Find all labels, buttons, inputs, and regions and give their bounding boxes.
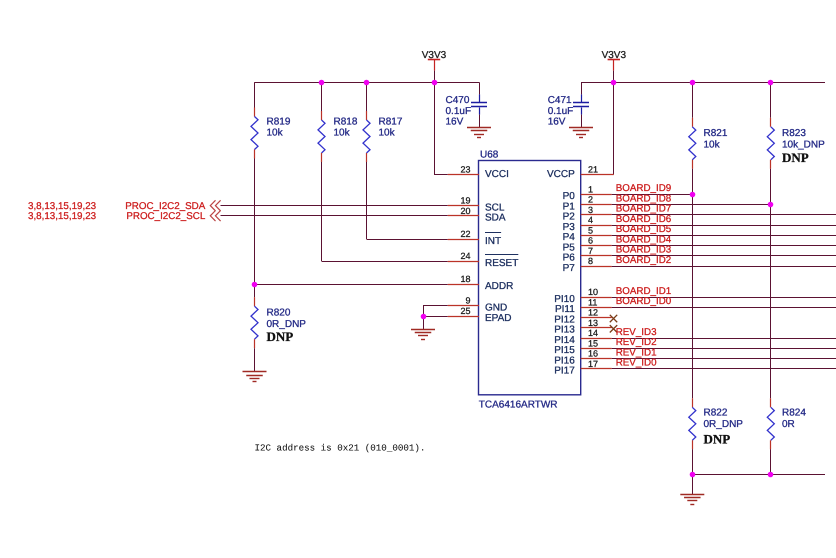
wire V3V3 right stub xyxy=(613,71,615,83)
pin 11 PI11 stub xyxy=(581,307,612,309)
wire BOARD_ID6 to sheet edge xyxy=(612,225,836,227)
svg-text:U68: U68 xyxy=(480,149,499,160)
wire R817 to INT corner xyxy=(366,162,368,239)
wire VCCI vertical from V3V3 junction xyxy=(434,82,436,174)
resistor R821 xyxy=(692,82,694,118)
pin 16 PI16 stub xyxy=(581,358,612,360)
svg-text:EPAD: EPAD xyxy=(485,313,512,324)
svg-text:R821: R821 xyxy=(704,128,728,139)
pin 24 RESET stub xyxy=(448,261,479,263)
svg-text:RESET: RESET xyxy=(485,258,518,269)
svg-text:1: 1 xyxy=(588,184,593,194)
svg-text:0.1uF: 0.1uF xyxy=(446,106,472,117)
pin 23 VCCI stub xyxy=(448,174,479,176)
wire R824 to bottom rail xyxy=(770,449,772,474)
svg-text:6: 6 xyxy=(588,236,593,246)
svg-text:10k: 10k xyxy=(334,128,351,139)
off-page connector chevrons SCL xyxy=(210,211,215,222)
svg-text:5: 5 xyxy=(588,225,593,235)
wire R820 to ground xyxy=(254,348,256,372)
svg-text:10k: 10k xyxy=(267,128,284,139)
wire R819 to ADDR junction xyxy=(254,159,256,285)
resistor R824 xyxy=(770,398,772,407)
junction dot at (434.5,82.5) xyxy=(432,80,438,86)
svg-text:0.1uF: 0.1uF xyxy=(548,106,574,117)
svg-text:DNP: DNP xyxy=(704,431,731,446)
wire REV_ID3 to sheet edge xyxy=(612,338,836,340)
wire BOARD_ID9 to R821 xyxy=(612,194,693,196)
wire R822 to bottom rail xyxy=(692,449,694,474)
overline RESET xyxy=(485,254,518,256)
svg-text:13: 13 xyxy=(588,318,598,328)
svg-text:R823: R823 xyxy=(782,128,806,139)
resistor R817 xyxy=(366,82,368,111)
ground under R820 xyxy=(243,371,267,373)
svg-text:VCCP: VCCP xyxy=(547,169,575,180)
resistor R818 xyxy=(321,82,323,111)
pin 3 P2 stub xyxy=(581,214,612,216)
wire R821 bottom to net junction xyxy=(692,169,694,195)
capacitor C471 xyxy=(581,82,583,94)
wire REV_ID0 to sheet edge xyxy=(612,368,836,370)
svg-text:P7: P7 xyxy=(563,263,576,274)
resistor R819 xyxy=(254,82,256,107)
pin 19 SCL stub xyxy=(448,205,479,207)
svg-text:C471: C471 xyxy=(548,95,572,106)
svg-text:R817: R817 xyxy=(379,117,403,128)
svg-text:INT: INT xyxy=(485,236,501,247)
wire bottom rail xyxy=(692,474,825,476)
svg-text:20: 20 xyxy=(460,206,470,216)
pin 15 PI15 stub xyxy=(581,348,612,350)
junction dot at (692.5,474.5) xyxy=(690,472,696,478)
svg-text:21: 21 xyxy=(588,165,598,175)
capacitor C470 xyxy=(479,82,481,94)
svg-text:0R_DNP: 0R_DNP xyxy=(704,419,744,430)
wire BOARD_ID8 to R823 xyxy=(612,204,771,206)
no-connect X on pin 13 xyxy=(610,325,617,332)
svg-text:25: 25 xyxy=(460,306,470,316)
wire REV_ID2 to sheet edge xyxy=(612,348,836,350)
pin 12 PI12 stub xyxy=(581,317,612,319)
junction dot at (692.5,194.5) xyxy=(690,192,696,198)
svg-text:TCA6416ARTWR: TCA6416ARTWR xyxy=(479,399,558,410)
ground under GND/EPAD xyxy=(411,329,435,331)
svg-text:PI17: PI17 xyxy=(554,366,575,377)
svg-text:15: 15 xyxy=(588,338,598,348)
op IC U68 body TCA6416ARTWR xyxy=(479,161,581,395)
resistor R823 xyxy=(770,82,772,118)
ground under C470 xyxy=(467,127,491,129)
wire SDA net (PROC_I2C2_SCL) xyxy=(221,215,448,217)
pin 20 SDA stub xyxy=(448,215,479,217)
wire BOARD_ID3 to sheet edge xyxy=(612,255,836,257)
pin 18 ADDR stub xyxy=(448,284,479,286)
junction dot at (423.5,316.5) xyxy=(421,314,427,320)
svg-text:19: 19 xyxy=(460,196,470,206)
junction dot at (321.5,82.5) xyxy=(319,80,325,86)
svg-text:16: 16 xyxy=(588,349,598,359)
resistor R820 xyxy=(254,284,256,297)
wire GND pin 9 route xyxy=(423,305,448,307)
svg-text:10k: 10k xyxy=(379,128,396,139)
svg-text:22: 22 xyxy=(460,229,470,239)
wire R818 to RESET corner xyxy=(321,162,323,261)
ground under R822 xyxy=(680,494,704,496)
svg-text:REV_ID0: REV_ID0 xyxy=(616,358,657,369)
svg-text:I2C address is 0x21 (010_0001): I2C address is 0x21 (010_0001). xyxy=(255,442,426,453)
pin 10 PI10 stub xyxy=(581,297,612,299)
svg-text:11: 11 xyxy=(588,297,597,307)
pin 1 P0 stub xyxy=(581,194,612,196)
no-connect X on pin 12 xyxy=(610,315,617,322)
svg-text:R819: R819 xyxy=(267,117,291,128)
wire ADDR net xyxy=(255,284,448,286)
pin 17 PI17 stub xyxy=(581,368,612,370)
pin 9 GND stub xyxy=(448,305,479,307)
svg-text:4: 4 xyxy=(588,215,593,225)
svg-text:SDA: SDA xyxy=(485,213,506,224)
wire BOARD_ID2 to sheet edge xyxy=(612,266,836,268)
overline INT xyxy=(485,232,501,234)
resistor R822 xyxy=(692,398,694,407)
wire VCCP vertical xyxy=(613,82,615,174)
wire junction to ground xyxy=(423,316,425,329)
junction dot at (613.5,82.5) xyxy=(611,80,617,86)
wire V3V3 left stub xyxy=(434,71,436,83)
svg-text:ADDR: ADDR xyxy=(485,281,513,292)
svg-text:3: 3 xyxy=(588,205,593,215)
svg-text:12: 12 xyxy=(588,308,598,318)
svg-text:16V: 16V xyxy=(446,117,464,128)
pin 7 P6 stub xyxy=(581,255,612,257)
wire column R821 to R822 xyxy=(692,194,694,398)
pin 21 VCCP stub xyxy=(581,174,614,176)
svg-text:R824: R824 xyxy=(782,408,806,419)
svg-text:PROC_I2C2_SCL: PROC_I2C2_SCL xyxy=(126,211,206,222)
pin 2 P1 stub xyxy=(581,204,612,206)
ground under C471 xyxy=(569,127,593,129)
junction dot at (770.5,82.5) xyxy=(768,80,774,86)
svg-text:R822: R822 xyxy=(704,408,728,419)
svg-text:3,8,13,15,19,23: 3,8,13,15,19,23 xyxy=(28,211,97,222)
wire VCCI horizontal to pin 23 xyxy=(434,174,448,176)
pin 4 P3 stub xyxy=(581,225,612,227)
wire top rail left segment xyxy=(255,82,480,84)
wire SCL net (PROC_I2C2_SDA) xyxy=(221,205,448,207)
svg-text:24: 24 xyxy=(460,251,470,261)
wire EPAD pin 25 route xyxy=(423,316,448,318)
pin 14 PI14 stub xyxy=(581,338,612,340)
svg-text:8: 8 xyxy=(588,256,593,266)
wire BOARD_ID4 to sheet edge xyxy=(612,245,836,247)
svg-text:16V: 16V xyxy=(548,117,566,128)
junction dot at (254.5,284.5) xyxy=(252,282,258,288)
svg-text:R818: R818 xyxy=(334,117,358,128)
svg-text:23: 23 xyxy=(460,165,470,175)
svg-text:C470: C470 xyxy=(446,95,470,106)
wire INT net xyxy=(367,239,448,241)
pin 8 P7 stub xyxy=(581,266,612,268)
wire R823 bottom to net junction xyxy=(770,169,772,205)
wire column R823 to R824 xyxy=(770,205,772,399)
wire BOARD_ID0 to sheet edge xyxy=(612,307,836,309)
svg-text:14: 14 xyxy=(588,328,598,338)
svg-text:10: 10 xyxy=(588,287,598,297)
svg-text:17: 17 xyxy=(588,359,598,369)
pin 5 P4 stub xyxy=(581,235,612,237)
pin 22 INT stub xyxy=(448,239,479,241)
svg-text:DNP: DNP xyxy=(782,150,809,165)
wire BOARD_ID7 to sheet edge xyxy=(612,214,836,216)
svg-text:VCCI: VCCI xyxy=(485,169,509,180)
svg-text:18: 18 xyxy=(460,274,470,284)
junction dot at (692.5,82.5) xyxy=(690,80,696,86)
svg-text:BOARD_ID2: BOARD_ID2 xyxy=(616,255,672,266)
pin 13 PI13 stub xyxy=(581,327,612,329)
wire REV_ID1 to sheet edge xyxy=(612,358,836,360)
svg-text:DNP: DNP xyxy=(267,329,294,344)
wire top rail right segment xyxy=(581,82,825,84)
svg-text:GND: GND xyxy=(485,302,507,313)
junction dot at (770.5,204.5) xyxy=(768,202,774,208)
svg-text:9: 9 xyxy=(465,296,470,306)
svg-text:10k: 10k xyxy=(704,139,721,150)
svg-text:R820: R820 xyxy=(267,308,291,319)
svg-text:10k_DNP: 10k_DNP xyxy=(782,139,825,150)
svg-text:2: 2 xyxy=(588,195,593,205)
wire BOARD_ID1 to sheet edge xyxy=(612,297,836,299)
pin 25 EPAD stub xyxy=(448,316,479,318)
junction dot at (366.5,82.5) xyxy=(364,80,370,86)
svg-text:7: 7 xyxy=(588,246,593,256)
pin 6 P5 stub xyxy=(581,245,612,247)
off-page connector chevrons SDA xyxy=(210,200,215,211)
wire RESET net xyxy=(322,261,448,263)
wire bottom rail to ground xyxy=(692,475,694,495)
svg-text:BOARD_ID0: BOARD_ID0 xyxy=(616,296,672,307)
svg-text:0R: 0R xyxy=(782,419,795,430)
junction dot at (770.5,474.5) xyxy=(768,472,774,478)
wire BOARD_ID5 to sheet edge xyxy=(612,235,836,237)
